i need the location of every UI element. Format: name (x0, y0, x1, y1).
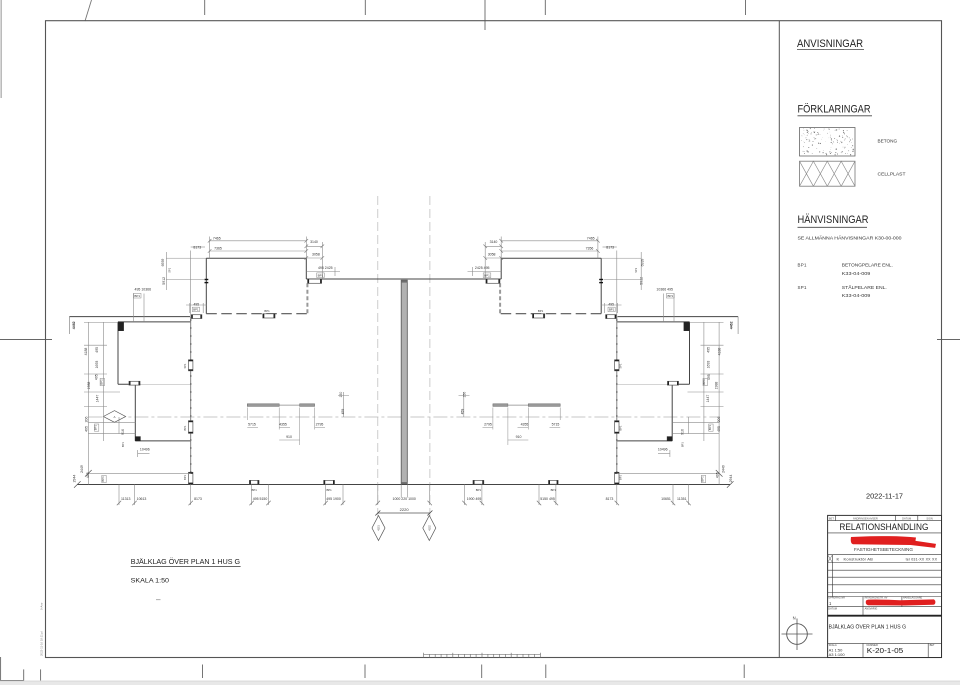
svg-text:4355: 4355 (279, 423, 287, 427)
svg-text:4462: 4462 (730, 321, 734, 329)
svg-text:BP1: BP1 (183, 425, 187, 430)
svg-text:1988: 1988 (714, 382, 718, 390)
svg-text:11351: 11351 (677, 497, 687, 501)
svg-text:495: 495 (95, 347, 99, 353)
svg-text:BP1: BP1 (252, 488, 258, 492)
dim column left of upper volume (165, 252, 167, 290)
grid centerline vertical right of wall (429, 196, 431, 532)
svg-text:10366 495: 10366 495 (656, 287, 673, 291)
horizontal grid line (88, 416, 719, 418)
column on bottom hidden edge (263, 314, 275, 318)
svg-text:3140: 3140 (490, 240, 498, 244)
svg-text:2022-11-17: 2022-11-17 (866, 492, 903, 501)
svg-text:BJÄLKLAG ÖVER PLAN 1 HUS G: BJÄLKLAG ÖVER PLAN 1 HUS G (131, 557, 241, 566)
svg-text:1447: 1447 (706, 395, 710, 403)
svg-text:2022-11-16 18:11 pl: 2022-11-16 18:11 pl (40, 631, 44, 656)
svg-text:SE ALLMÄNNA HÄNVISNINGAR K30-0: SE ALLMÄNNA HÄNVISNINGAR K30-00-000 (798, 235, 903, 240)
column SP1 mid (189, 421, 193, 434)
svg-text:BP1: BP1 (101, 476, 105, 482)
svg-text:BP1: BP1 (99, 379, 103, 385)
svg-text:BP1: BP1 (667, 294, 673, 298)
wall stub left with column (69, 316, 190, 318)
black corner column (118, 322, 123, 331)
svg-text:4355: 4355 (521, 423, 529, 427)
faint extension room bottom to wall (141, 383, 191, 385)
svg-text:BP1: BP1 (264, 309, 270, 313)
column BP1 bottom (189, 472, 193, 484)
svg-text:6939: 6939 (641, 259, 645, 267)
svg-text:N: N (793, 616, 796, 621)
columns on bottom wall (249, 480, 259, 484)
svg-text:4188: 4188 (84, 348, 88, 356)
grid diamond bottom left (372, 516, 385, 541)
svg-text:5715: 5715 (248, 423, 256, 427)
black column lower corner (135, 437, 140, 441)
svg-text:BP1: BP1 (484, 274, 490, 278)
left page-edge scan line (0, 0, 2, 98)
svg-text:10496: 10496 (658, 447, 668, 451)
svg-text:RITAD/KONSTR. AV: RITAD/KONSTR. AV (865, 597, 888, 600)
oblique ticks on bottom ext lines (117, 501, 121, 505)
svg-text:910: 910 (516, 435, 522, 439)
svg-text:8173: 8173 (606, 497, 614, 501)
svg-text:SP1: SP1 (183, 363, 187, 368)
svg-text:10613: 10613 (137, 497, 147, 501)
svg-text:5150 495: 5150 495 (540, 497, 555, 501)
svg-text:ANVISNINGAR: ANVISNINGAR (797, 38, 863, 50)
svg-text:DATUM: DATUM (828, 607, 837, 610)
svg-text:ÄNDRINGEN AVSER: ÄNDRINGEN AVSER (853, 516, 878, 520)
svg-text:916: 916 (121, 429, 125, 435)
svg-text:495: 495 (716, 472, 720, 478)
dim line 916 row (88, 421, 135, 423)
column bottom edge of room (129, 381, 140, 385)
svg-text:BP1: BP1 (326, 488, 332, 492)
svg-text:A: A (113, 415, 115, 419)
svg-text:1693: 1693 (706, 361, 710, 369)
hidden edge right lower (dashed) (306, 283, 308, 313)
svg-text:UPPDRAG.NR: UPPDRAG.NR (828, 597, 845, 600)
dim 10366 leaders (133, 294, 135, 322)
svg-text:K: K (837, 557, 840, 562)
dim 10496 (138, 453, 150, 455)
svg-text:2944: 2944 (729, 475, 733, 483)
wall face extension lines (400, 485, 402, 498)
svg-text:CELLPLAST: CELLPLAST (878, 172, 906, 177)
svg-text:7465: 7465 (213, 236, 221, 240)
svg-text:495: 495 (85, 426, 89, 432)
bottom long wall line (77, 484, 730, 486)
svg-text:BP1: BP1 (193, 308, 199, 312)
svg-text:495: 495 (86, 472, 90, 478)
svg-text:BP1: BP1 (701, 476, 705, 482)
svg-text:5912: 5912 (162, 277, 166, 285)
svg-text:Konstruktör AB: Konstruktör AB (844, 557, 874, 562)
svg-text:HANDLÄGGARE: HANDLÄGGARE (903, 597, 923, 600)
svg-text:BET: BET (829, 516, 834, 520)
grid centerline vertical left of wall (377, 196, 379, 532)
svg-text:8173: 8173 (194, 497, 202, 501)
svg-text:ANSVARIG: ANSVARIG (865, 607, 878, 610)
svg-text:3058: 3058 (488, 253, 496, 257)
svg-text:150: 150 (462, 392, 466, 398)
svg-text:206: 206 (717, 417, 721, 423)
svg-text:BP1: BP1 (702, 379, 706, 385)
svg-text:BP1: BP1 (619, 474, 623, 479)
dim lines top of upper volume (210, 240, 307, 242)
svg-text:2449: 2449 (722, 465, 726, 473)
svg-text:RELATIONSHANDLING: RELATIONSHANDLING (839, 522, 928, 532)
svg-text:1900 495: 1900 495 (467, 497, 482, 501)
svg-text:BP1: BP1 (798, 262, 807, 267)
svg-text:7365: 7365 (214, 247, 222, 251)
concrete beam strips (247, 404, 279, 407)
side fold ticks (0, 339, 52, 341)
dim 2220 between centrelines (378, 512, 430, 514)
svg-text:459: 459 (461, 409, 465, 415)
svg-text:1447: 1447 (95, 395, 99, 403)
svg-text:2795: 2795 (316, 423, 324, 427)
oblique ticks top dims (208, 239, 212, 243)
grid diamond left (103, 411, 125, 423)
svg-text:1988: 1988 (87, 382, 91, 390)
svg-text:4101: 4101 (378, 525, 381, 531)
svg-text:SP1: SP1 (798, 285, 807, 290)
svg-text:1693: 1693 (95, 361, 99, 369)
consultant row (828, 554, 942, 556)
fold tick marks bottom edge (202, 665, 204, 679)
legend cellplast swatch (800, 161, 856, 186)
svg-text:BET: BET (930, 644, 935, 647)
svg-text:BP1: BP1 (318, 274, 324, 278)
svg-text:495 2425: 495 2425 (318, 266, 333, 270)
svg-text:SP1: SP1 (619, 363, 623, 368)
empty revision rows (828, 562, 942, 564)
svg-text:STÅLPELARE ENL.: STÅLPELARE ENL. (842, 285, 887, 290)
svg-text:FÖRKLARINGAR: FÖRKLARINGAR (798, 103, 871, 115)
svg-text:K-20-1-05: K-20-1-05 (867, 646, 903, 655)
svg-text:2449: 2449 (80, 465, 84, 473)
svg-text:BP1: BP1 (476, 488, 482, 492)
svg-text:6939: 6939 (161, 259, 165, 267)
hidden edge bottom (dashed) (206, 313, 308, 315)
beam dim leaders (343, 392, 345, 417)
svg-text:BP1: BP1 (183, 474, 187, 479)
legend betong (concrete) swatch (800, 128, 856, 157)
svg-text:SP1: SP1 (634, 267, 638, 272)
bottom-left corner registration marks (0, 657, 2, 681)
svg-text:1000 220 1000: 1000 220 1000 (393, 497, 416, 501)
dimension text layer (72, 236, 734, 501)
svg-text:3058: 3058 (312, 253, 320, 257)
dim 495/BP1 leaders above stub column (189, 303, 191, 313)
svg-text:8173: 8173 (193, 245, 201, 249)
svg-text:SP1: SP1 (167, 267, 171, 272)
staff row (828, 596, 942, 598)
title panel divider (778, 21, 780, 658)
north compass (787, 624, 808, 645)
svg-text:8173: 8173 (606, 245, 614, 249)
dim row 2449 (88, 472, 190, 474)
left vertical dim chains (87, 322, 89, 485)
svg-text:4102: 4102 (428, 525, 431, 531)
svg-text:3140: 3140 (310, 240, 318, 244)
svg-text:BP1: BP1 (619, 425, 623, 430)
svg-text:910: 910 (286, 435, 292, 439)
svg-text:495 10366: 495 10366 (135, 287, 152, 291)
tick left edge of upper volume (205, 279, 209, 281)
svg-text:4188: 4188 (718, 348, 722, 356)
red redaction company name (851, 536, 916, 545)
svg-text:BETONG: BETONG (878, 139, 898, 144)
upper long wall line across centre (306, 278, 501, 280)
title block frame (828, 515, 942, 657)
svg-text:495: 495 (95, 374, 99, 380)
svg-text:150: 150 (339, 392, 343, 398)
svg-text:BP1: BP1 (609, 308, 615, 312)
svg-text:11313: 11313 (121, 497, 131, 501)
svg-text:5715: 5715 (552, 423, 560, 427)
svg-text:0-Anv: 0-Anv (40, 602, 44, 610)
svg-text:BP1: BP1 (681, 442, 685, 447)
svg-text:916: 916 (681, 429, 685, 435)
svg-text:BETONGPELARE ENL.: BETONGPELARE ENL. (842, 262, 893, 267)
bottom extension lines (118, 485, 120, 506)
svg-text:K33-04-009: K33-04-009 (842, 293, 871, 298)
dim lines right of upper volume (306, 245, 322, 247)
svg-text:459: 459 (341, 409, 345, 415)
fold tick marks top edge (204, 0, 206, 15)
svg-text:5912: 5912 (640, 277, 644, 285)
svg-text:DATUM: DATUM (902, 516, 911, 520)
svg-text:206: 206 (85, 417, 89, 423)
svg-text:BP1: BP1 (538, 309, 544, 313)
upper volume walls (206, 257, 306, 259)
graphic scale ruler (423, 653, 425, 658)
svg-text:4462: 4462 (72, 321, 76, 329)
svg-text:HÄNVISNINGAR: HÄNVISNINGAR (798, 214, 869, 226)
svg-text:495: 495 (706, 347, 710, 353)
svg-text:BP1: BP1 (94, 425, 98, 431)
thick divider (828, 615, 942, 617)
svg-text:SKALA 1:50: SKALA 1:50 (131, 578, 170, 585)
svg-text:2220: 2220 (400, 507, 410, 512)
svg-text:FASTIGHETSBETECKNING: FASTIGHETSBETECKNING (854, 547, 914, 552)
svg-text:A3 1:100: A3 1:100 (829, 652, 846, 657)
svg-text:2944: 2944 (73, 475, 77, 483)
svg-text:7465: 7465 (587, 236, 595, 240)
grid diamond bottom right (423, 516, 436, 541)
svg-text:K33-04-009: K33-04-009 (842, 271, 871, 276)
bottom grey scanner strip (0, 681, 960, 685)
svg-text:BP1: BP1 (121, 442, 125, 447)
red redaction names (866, 599, 936, 605)
svg-text:7356: 7356 (586, 247, 594, 251)
slanted pen mark top-left (85, 0, 92, 21)
svg-text:495: 495 (608, 303, 614, 307)
column SP1 upper (189, 360, 193, 371)
svg-text:SIGN: SIGN (926, 516, 932, 520)
bottom row scale/number (828, 642, 942, 644)
svg-text:BP1: BP1 (134, 294, 140, 298)
room outer walls (118, 321, 191, 323)
svg-text:2425 495: 2425 495 (475, 266, 490, 270)
svg-text:tel 031-XX XX XX: tel 031-XX XX XX (906, 558, 938, 562)
party wall concrete fill (401, 280, 407, 484)
svg-text:10651: 10651 (661, 497, 671, 501)
svg-text:495: 495 (193, 303, 199, 307)
svg-text:BP1: BP1 (551, 488, 557, 492)
svg-text:BJÄLKLAG ÖVER PLAN 1 HUS G: BJÄLKLAG ÖVER PLAN 1 HUS G (829, 624, 906, 631)
svg-text:BP1: BP1 (708, 425, 712, 431)
svg-text:495: 495 (717, 426, 721, 432)
header row (828, 520, 942, 522)
interior wall (insulated) (190, 317, 192, 485)
svg-text:2795: 2795 (484, 423, 492, 427)
svg-text:495 5150: 495 5150 (253, 497, 268, 501)
svg-text:495 1900: 495 1900 (326, 497, 341, 501)
column BP1 top right step (308, 279, 322, 283)
svg-text:10496: 10496 (140, 447, 150, 451)
